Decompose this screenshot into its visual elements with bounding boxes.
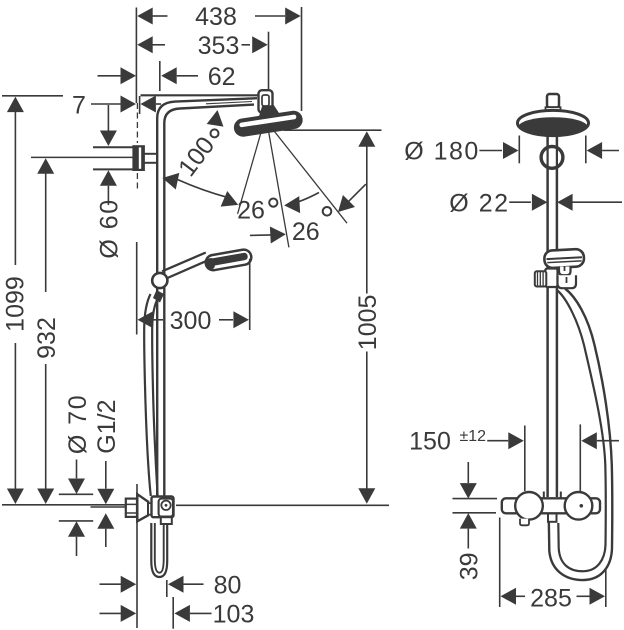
wall bracket flange — [134, 146, 144, 170]
head dark disc — [519, 117, 588, 136]
pipe through ball joint — [548, 148, 557, 167]
dimension 285 extension line right — [605, 569, 607, 607]
dimension D180 arrow left — [503, 142, 519, 159]
dimension D70 extension line top — [59, 493, 93, 495]
top cap collar — [546, 107, 561, 111]
dimension 1005 top extension line — [284, 129, 382, 131]
hose connector tab below valve — [161, 517, 172, 524]
dimension D70 arrow up — [68, 521, 85, 537]
dimension 39 arrow up — [460, 513, 477, 529]
dimension 150 extension line left — [524, 426, 526, 492]
knob ridges — [538, 272, 544, 287]
dimension 285 line right segment — [577, 595, 590, 597]
hose outlet nub below valve — [548, 513, 557, 522]
valve body dot — [165, 504, 168, 507]
spray line L1 — [238, 129, 262, 214]
dimension 932 line lower — [45, 364, 47, 489]
dimension 103 arrow right — [174, 605, 190, 622]
dimension 1005 line upper — [366, 146, 368, 294]
svg-text:80: 80 — [214, 571, 242, 599]
dimension 103 left tail — [100, 612, 122, 614]
dimension 1099 line upper — [14, 111, 16, 266]
dimension D70 line lower — [76, 537, 78, 556]
dimension 300 arrow right — [233, 311, 249, 328]
hand shower head (tilted pill) — [205, 248, 253, 271]
dimension G1/2 arrow up — [97, 513, 114, 529]
angle 26 second right tail — [349, 184, 366, 201]
svg-text:Ø 60: Ø 60 — [96, 198, 124, 258]
overhead shower head (side view, tilted pill) — [234, 111, 302, 136]
dimension 300 line right segment — [219, 319, 233, 321]
hose loop below valve outer U — [151, 523, 167, 577]
dimension D60 arrow down — [100, 131, 117, 147]
riser pipe inner (right) line with bend into arm — [164, 105, 254, 497]
dimension 62 right tail — [177, 75, 198, 77]
svg-text:300: 300 — [170, 307, 212, 335]
svg-text:26: 26 — [237, 197, 265, 225]
dashed centreline through bracket — [136, 103, 138, 143]
right knob marker — [580, 504, 584, 508]
dimension 39 extension line top — [453, 498, 498, 500]
svg-text:Ø 180: Ø 180 — [404, 138, 480, 166]
dimension 438 line right segment — [255, 15, 285, 17]
dimension 80 arrow right — [168, 576, 184, 593]
svg-text:G1/2: G1/2 — [93, 399, 121, 453]
dimension 353 extension line right — [268, 32, 270, 90]
slider clamp on pipe — [545, 269, 557, 288]
dimension G1/2 line lower — [105, 529, 107, 547]
dimension 150 arrow right — [581, 432, 597, 449]
dimension D70 arrow down — [68, 479, 85, 495]
riser pipe left line (right view) — [546, 135, 549, 497]
dimension 438 extension line right — [301, 7, 303, 111]
hose outer wall (right view) — [549, 289, 612, 581]
bracket stem bottom line — [144, 162, 157, 164]
svg-text:353: 353 — [198, 32, 240, 60]
dimension 62 extension line — [159, 61, 161, 91]
dimension D180 leader line left — [479, 150, 502, 152]
dimension D70 line upper — [76, 460, 78, 479]
dimension 1005 arrow down — [358, 488, 375, 504]
inlet nut — [126, 499, 137, 517]
dimension 7 right boundary tick — [139, 96, 141, 114]
angle 100 degree circle — [211, 129, 219, 137]
dimension 80 extension tick — [166, 580, 168, 597]
dimension 285 extension line left — [499, 518, 501, 608]
svg-text:150: 150 — [409, 428, 451, 456]
dark cone joint between arm and head — [259, 106, 282, 120]
dimension 932 line upper — [45, 172, 47, 292]
dimension 150 extension line right — [579, 424, 581, 491]
dimension 932 arrow up — [37, 158, 54, 174]
dimension D180 extension line right — [585, 136, 587, 164]
arm end cap — [259, 90, 273, 113]
dimension 438 arrow left — [137, 8, 153, 25]
angle 26 second degree circle — [323, 207, 332, 216]
hose loop below valve inner U — [155, 523, 164, 573]
dimension D22 arrow left — [532, 194, 548, 211]
dimension 1005 arrow up — [358, 131, 375, 147]
dimension G1/2 line upper — [105, 461, 107, 489]
dimension 285 line left segment — [516, 595, 525, 597]
svg-text:285: 285 — [530, 584, 572, 612]
hand shower handle lower line — [166, 260, 209, 279]
riser pipe outer (left) line with bend into arm — [157, 98, 257, 496]
valve body inner square — [159, 499, 173, 517]
dimension 300 line left segment — [152, 319, 163, 321]
hand shower handle upper line — [162, 253, 206, 272]
svg-text:Ø 70: Ø 70 — [64, 394, 92, 454]
angle 26 second arrow right — [332, 195, 355, 218]
dimension 103 arrow left — [121, 605, 137, 622]
svg-text:39: 39 — [456, 552, 484, 580]
top cap — [547, 94, 559, 108]
spray line L3 — [273, 129, 348, 223]
riser pipe right line (right view) — [556, 135, 559, 497]
angle 26 first arrow right — [284, 196, 300, 214]
dimension 39 line upper — [467, 462, 469, 483]
angle 26 second arrow left — [270, 226, 286, 244]
dimension 353 line left segment — [152, 44, 165, 46]
holder inner notch — [565, 267, 567, 284]
dimension 7 arrow left — [121, 96, 137, 113]
valve right knob — [565, 492, 593, 520]
hand shower slider circle — [152, 273, 167, 288]
svg-text:Ø 22: Ø 22 — [449, 189, 509, 217]
dimension D22 arrow right — [557, 194, 573, 211]
dimension G1/2 arrow down — [97, 489, 114, 505]
holder clamp knob (ridged) — [535, 271, 547, 286]
dimension D70 extension line bottom — [59, 520, 93, 522]
svg-text:26: 26 — [292, 218, 320, 246]
holder body upper — [559, 267, 571, 276]
dimension 1005 line lower — [366, 352, 368, 489]
wall bracket plate bottom line — [93, 168, 134, 170]
dimension 7 arrow right — [140, 96, 156, 113]
svg-text:438: 438 — [195, 3, 237, 31]
dimension 103 right tail — [190, 612, 212, 614]
dimension 932 arrow down — [37, 489, 54, 505]
dimension 438 line left segment — [152, 15, 168, 17]
svg-text:100: 100 — [173, 132, 220, 182]
inlet stub second line — [91, 506, 127, 508]
dimension 39 arrow down — [460, 483, 477, 499]
spray line L2 — [269, 131, 289, 247]
dimension 80 right tail — [184, 583, 204, 585]
hose inner wall (right view) — [558, 291, 606, 572]
dimension 300 extension line left — [136, 242, 138, 335]
dimension 103 extension tick — [172, 597, 174, 629]
bottom reference line (left view) — [136, 484, 138, 628]
dimension 285 arrow left — [501, 588, 517, 605]
dimension 150 tail right — [597, 440, 619, 442]
inlet nut inner lines — [126, 504, 137, 513]
dimension D180 extension line left — [518, 136, 520, 164]
wall bracket flange dark band — [134, 147, 139, 170]
dimension 353 line right segment — [242, 44, 251, 46]
wall bracket plate top line — [93, 146, 134, 148]
dimension 62 arrow left (outside, pointing right) — [121, 67, 137, 84]
dimension 80 left tail — [100, 583, 122, 585]
dimension 1099 arrow down — [7, 489, 24, 505]
dimension D22 leader line left — [509, 201, 531, 203]
pipe junction block above valve — [544, 492, 561, 499]
svg-text:932: 932 — [33, 317, 61, 359]
wire: shower arm top edge — [141, 94, 259, 96]
dark hose nut below slider — [153, 290, 164, 303]
datum line middle segment — [176, 504, 389, 506]
dimension D60 line upper — [107, 105, 109, 131]
angle 26 first degree circle — [269, 199, 277, 207]
svg-text:1005: 1005 — [354, 295, 382, 351]
hand shower head pill (front view) — [544, 249, 584, 269]
valve neck — [148, 503, 152, 514]
angle 100 arrow at head — [207, 109, 226, 127]
dimension D180 tail right — [602, 150, 619, 152]
svg-text:1099: 1099 — [2, 276, 30, 332]
wall bracket plate centre line / 932 extension line — [31, 156, 134, 158]
angle 26 first arrow left — [221, 191, 242, 213]
hand shower hose upper left wall — [144, 294, 151, 496]
angle 26 first right tail arc — [297, 193, 320, 203]
angle 100 arrow at pipe — [161, 170, 180, 190]
angle 100 / 26 shared tail arc — [178, 180, 229, 198]
dimension 1099 top extension line — [2, 95, 63, 97]
dimension 7 right tail — [156, 103, 161, 105]
dimension 39 line lower — [467, 529, 469, 549]
escutcheon cone — [137, 494, 148, 521]
wire: thin highlight line on arm — [206, 102, 252, 104]
dimension 39 extension line bottom — [453, 512, 497, 514]
svg-text:103: 103 — [213, 601, 255, 629]
bracket stem top line — [144, 153, 157, 155]
hand shower hose upper right wall — [152, 298, 158, 496]
valve left knob — [515, 492, 543, 520]
dimension 1099 arrow up — [7, 97, 24, 113]
dimension 150 arrow left — [508, 432, 524, 449]
valve body — [152, 497, 174, 518]
thermostat valve bar — [502, 498, 600, 513]
water inlet stub line (datum left segment) — [2, 504, 126, 506]
arm end cap inner detail — [262, 95, 269, 106]
dimension 438 extension line left — [135, 8, 137, 104]
holder cup lower — [558, 275, 577, 288]
valve body circle — [161, 501, 170, 510]
dimension 285 arrow right — [590, 588, 606, 605]
dimension 353 arrow left — [137, 36, 153, 53]
overhead shower head (front view ellipse) — [518, 110, 589, 135]
safety tab below left knob — [520, 519, 529, 526]
dimension 7 left tail — [91, 103, 121, 105]
dimension 62 arrow right (outside, pointing left) — [161, 67, 177, 84]
dimension 353 arrow right — [252, 36, 268, 53]
dimension 438 arrow right — [285, 8, 301, 25]
ball joint circle — [541, 147, 563, 169]
dimension D22 tail right — [572, 201, 622, 203]
dimension D180 arrow right — [587, 142, 603, 159]
angle 26 second left tail — [250, 234, 271, 237]
dimension 150 leader line — [487, 440, 508, 442]
svg-text:±12: ±12 — [460, 428, 487, 445]
dimension D60 arrow up — [100, 170, 117, 186]
dimension 300 extension line right — [249, 259, 251, 330]
dimension 300 arrow left — [138, 311, 154, 328]
dimension 1099 line lower — [14, 343, 16, 489]
dimension 80 arrow left — [121, 576, 137, 593]
dimension D60 line lower — [107, 186, 109, 205]
svg-text:62: 62 — [208, 63, 236, 91]
dimension 62 left tail — [98, 75, 122, 77]
svg-text:7: 7 — [72, 92, 86, 120]
